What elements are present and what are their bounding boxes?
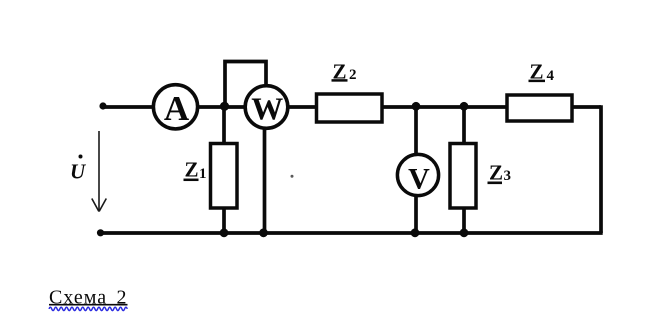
impedance Z1 box [211, 144, 238, 209]
node: junction top voltmeter [412, 102, 421, 111]
svg-text:A: A [164, 89, 190, 128]
wire: Z2 to Z4 segment of top rail [381, 105, 508, 109]
svg-text:2: 2 [349, 67, 357, 83]
wire: voltmeter branch top [414, 107, 418, 154]
wire: ammeter to junction node [198, 105, 245, 109]
wire: right vertical drop [599, 105, 603, 233]
svg-text:Z: Z [185, 158, 199, 182]
impedance Z4 box [507, 95, 572, 121]
wire: bottom rail [101, 231, 603, 235]
wire: Z1 branch top [222, 107, 226, 144]
ammeter A1 circle [153, 85, 197, 129]
caption underline [49, 304, 128, 306]
wire: Z3 branch bottom [462, 208, 466, 233]
wire: voltmeter branch bottom [414, 197, 418, 234]
node: junction bottom voltmeter [411, 228, 420, 237]
label U dot (phasor) [79, 155, 83, 159]
node: input bottom terminal [97, 229, 104, 236]
node: junction bottom Z1 [220, 228, 229, 237]
svg-text:U: U [70, 160, 87, 184]
wire: Z4 to right corner [571, 105, 601, 109]
wire: Z3 branch top [462, 107, 466, 144]
svg-text:3: 3 [504, 168, 512, 184]
svg-text:W: W [251, 91, 283, 127]
source voltage arrow [92, 131, 107, 212]
voltmeter V1 circle [397, 154, 438, 195]
node: input top terminal [99, 102, 106, 109]
svg-text:1: 1 [199, 166, 207, 182]
impedance Z3 box [450, 144, 476, 209]
wire: wattmeter bottom return [263, 129, 267, 233]
wire: wattmeter right to Z2 [288, 105, 317, 109]
impedance Z2 box [317, 94, 383, 122]
wire: Z1 branch bottom [222, 208, 226, 233]
node: junction bottom wattmeter [259, 228, 268, 237]
wire: wattmeter voltage-coil loop [225, 62, 266, 108]
wattmeter W1 circle [245, 86, 288, 129]
wire: top rail left segment (input to ammeter) [103, 105, 153, 109]
svg-text:V: V [408, 162, 430, 195]
node: junction top Z3 [460, 102, 469, 111]
stray speck [291, 175, 294, 178]
caption squiggle underline [49, 307, 127, 310]
svg-text:4: 4 [547, 68, 555, 84]
svg-text:Z: Z [489, 160, 503, 184]
node: junction top A/W/Z1 [220, 102, 229, 111]
node: junction bottom Z3 [460, 228, 469, 237]
